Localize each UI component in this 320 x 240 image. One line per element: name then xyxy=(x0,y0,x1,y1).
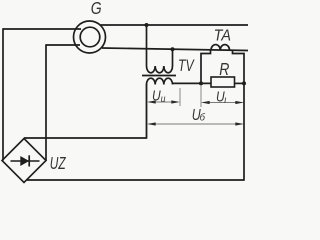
node: bus right junction dot xyxy=(242,81,246,85)
node: junction dot on wire1 xyxy=(145,23,149,27)
diode triangle xyxy=(20,156,29,166)
generator G inner circle xyxy=(80,27,100,47)
dimension arrow Uu xyxy=(147,100,180,103)
dimension arrow Ub xyxy=(147,122,244,125)
svg-text:ı: ı xyxy=(224,95,227,107)
wire: R right terminal to right bus xyxy=(235,82,245,84)
transformer TV secondary winding xyxy=(147,78,173,84)
svg-text:G: G xyxy=(91,0,102,18)
generator G outer circle xyxy=(74,21,106,53)
wire: generator lower-left horizontal xyxy=(46,44,80,46)
svg-text:R: R xyxy=(219,59,229,79)
diode cathode bar xyxy=(28,155,30,166)
svg-text:U: U xyxy=(152,87,161,104)
wire: left vertical down to rectifier left corner xyxy=(2,28,4,160)
wire: riser from corner up to TV secondary left terminal xyxy=(146,84,148,139)
rectifier UZ diamond xyxy=(2,139,46,183)
dimension extension line x=201 (Ui left) xyxy=(200,85,202,107)
node: junction dot on wire2 xyxy=(171,47,175,51)
transformer TV core xyxy=(142,75,176,77)
current transformer TA left lead xyxy=(201,50,211,84)
svg-text:TA: TA xyxy=(214,27,231,45)
svg-text:u: u xyxy=(161,93,166,104)
wire: top-right horizontal (wire 1) xyxy=(101,24,249,26)
svg-text:TV: TV xyxy=(178,57,195,75)
wire: vertical x=46 from corner down to rectifier right corner xyxy=(45,44,47,160)
wire: secondary bus TV to R xyxy=(173,82,212,84)
wire: bottom horizontal return xyxy=(27,179,244,181)
dimension arrow Ui xyxy=(201,101,244,104)
wire: lower horizontal (wire 2) generator to right edge xyxy=(102,48,248,51)
current transformer TA secondary humps xyxy=(211,45,230,50)
node: bus left junction dot xyxy=(199,81,203,85)
wire: right vertical from bus down to bottom xyxy=(243,83,245,180)
wire: top-left horizontal from left corner to generator xyxy=(3,28,81,30)
wire: rectifier top corner to riser corner xyxy=(24,137,147,139)
resistor R body xyxy=(211,77,235,87)
diode inside UZ: anode line xyxy=(11,160,40,162)
svg-text:UZ: UZ xyxy=(50,154,67,174)
current transformer TA right lead xyxy=(233,50,245,83)
dimension extension line x=180 (Uu right) xyxy=(179,88,181,106)
svg-text:б: б xyxy=(200,112,206,124)
transformer TV primary winding xyxy=(147,25,173,73)
